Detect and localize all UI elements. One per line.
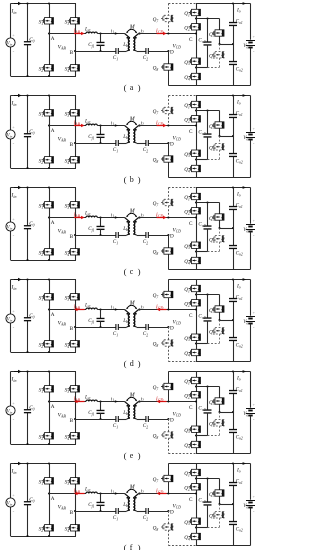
node D (f): [167, 510, 174, 516]
mutual coupling arc M (b): [126, 121, 137, 125]
wire: input left rail (a): [10, 4, 12, 77]
switch Q5 chain (b): [212, 111, 224, 138]
svg-text:iCD: iCD: [156, 29, 163, 35]
node B (e): [70, 418, 76, 424]
svg-text:iCD: iCD: [156, 213, 163, 219]
switch Q3 (c): [189, 242, 201, 248]
wire: right top rail dashed segment (e): [168, 371, 196, 373]
current arrow i2 (f): [139, 488, 144, 495]
wire: bridge leg1 (e): [49, 372, 51, 445]
capacitor C1 (a): [116, 48, 118, 54]
wire: bridge leg1 (c): [49, 188, 51, 261]
transformer primary winding Lk (d): [125, 310, 130, 328]
capacitor Co2 (b): [229, 154, 237, 157]
current arrow Iin (e): [14, 370, 22, 374]
wire: node A to transformer (f): [49, 493, 125, 495]
wire: n2 rail Q3-Q4 midpoint (c): [195, 250, 220, 252]
wire: midpoint link to output caps (f): [220, 503, 235, 505]
current arrow Iin (c): [14, 186, 22, 190]
svg-text:c: c: [130, 267, 134, 276]
flying capacitor Co3 column (f): [204, 479, 212, 528]
node A (c): [48, 216, 55, 226]
polarity dots transformer (b): [126, 129, 136, 131]
wire: n1 rail Q1-Q2 midpoint (b): [195, 109, 220, 111]
capacitor Co2 (d): [229, 338, 237, 341]
svg-text:D: D: [170, 50, 174, 56]
output capacitor column (c): [232, 186, 234, 269]
switch Q6 chain dashed (d): [212, 320, 224, 344]
switch Q2 (d): [189, 300, 201, 306]
red current arrow iCD (a): [157, 32, 167, 36]
junction dots top/bottom rails (f): [26, 462, 50, 537]
node C (e): [189, 400, 197, 411]
wire: C0 rail (f): [27, 464, 29, 537]
wire: input top rail (a): [11, 3, 77, 5]
polarity marks Vin (f): [12, 493, 15, 515]
capacitor C2 (a): [146, 48, 148, 54]
svg-text:B: B: [70, 510, 74, 516]
red current arrow iCD (c): [157, 216, 167, 220]
switch S2 (c): [42, 249, 54, 255]
svg-text:d: d: [130, 359, 134, 368]
source Vin (e): [6, 406, 15, 415]
caption (b): [124, 175, 141, 185]
svg-text:): ): [138, 83, 141, 93]
wire: bottom rail left bridge (a): [11, 76, 77, 78]
svg-text:C: C: [189, 405, 193, 411]
switch Q4 (a): [189, 73, 201, 79]
output capacitor column (d): [232, 278, 234, 361]
wire: midpoint link to output caps (e): [220, 411, 235, 413]
switch Q1 (d): [189, 285, 201, 291]
node C (d): [189, 308, 197, 319]
svg-text:C: C: [189, 37, 193, 43]
current arrow Iin (a): [14, 2, 22, 6]
switch S3 (b): [68, 110, 80, 116]
svg-text:(: (: [124, 267, 127, 277]
current arrow i1 (e): [111, 396, 118, 403]
switch S1 (a): [42, 18, 54, 24]
wire: transformer to node C (c): [139, 217, 196, 219]
svg-text:D: D: [170, 234, 174, 240]
capacitor Co1 (b): [229, 115, 237, 118]
switch Q4 (e): [189, 441, 201, 447]
node A (f): [48, 492, 55, 502]
node C (f): [189, 492, 197, 503]
current arrow i1 (a): [111, 28, 118, 35]
auxiliary switch Q8 chain (c): [161, 235, 173, 270]
node B (c): [70, 234, 76, 240]
battery Vo (c): [246, 188, 255, 270]
junction dot iCD wire (a): [167, 32, 169, 34]
wire: node A to transformer (c): [49, 217, 125, 219]
wire: bridge leg2 (f): [75, 464, 77, 537]
svg-text:A: A: [51, 496, 55, 502]
wire: node B to C1 (c): [75, 235, 116, 237]
battery Vo (f): [246, 464, 255, 546]
wire: input top rail (c): [11, 187, 77, 189]
wire: right bottom rail (e): [196, 453, 251, 455]
wire: input top rail (f): [11, 463, 77, 465]
junction dot iCD wire (c): [167, 216, 169, 218]
svg-text:): ): [138, 175, 141, 185]
wire: secondary bottom to C2 (e): [137, 419, 146, 421]
switch S1 (b): [42, 110, 54, 116]
inductor Lf1 (d): [86, 308, 97, 309]
node B (f): [70, 510, 76, 516]
wire: right top rail (d): [196, 279, 251, 281]
svg-text:iAB: iAB: [74, 489, 81, 495]
wire: n2 rail Q3-Q4 midpoint (a): [195, 66, 220, 68]
switch S4 (e): [68, 433, 80, 439]
switch S2 (b): [42, 157, 54, 163]
red current arrow iCD (f): [157, 492, 167, 496]
wire: right bottom rail segment (c): [168, 269, 196, 271]
mutual coupling arc M (a): [126, 29, 137, 33]
wire: transformer to node C (d): [139, 309, 196, 311]
red current arrow iAB (a): [74, 32, 85, 36]
svg-text:B: B: [70, 50, 74, 56]
transformer secondary winding (b): [133, 126, 138, 144]
auxiliary switch Q8 chain (e): [161, 419, 173, 454]
switch Q3 (d): [189, 334, 201, 340]
capacitor Cf1 (b): [97, 124, 105, 144]
switch Q5 chain (d): [212, 295, 224, 322]
wire: right top rail (c): [196, 187, 251, 189]
svg-text:C: C: [189, 313, 193, 319]
svg-text:C: C: [189, 221, 193, 227]
node D (e): [167, 418, 174, 424]
node C (c): [189, 216, 197, 227]
capacitor C1 (c): [116, 232, 118, 238]
wire: C2 to node D (e): [148, 419, 168, 421]
svg-text:C: C: [189, 497, 193, 503]
polarity dots transformer (a): [126, 37, 136, 39]
svg-text:B: B: [70, 234, 74, 240]
svg-text:(: (: [124, 359, 127, 369]
auxiliary switch Q7 chain (a): [161, 4, 173, 34]
wire: input top rail (e): [11, 371, 77, 373]
switch Q5 chain (f): [212, 479, 224, 506]
junction dot iCD wire (e): [167, 400, 169, 402]
capacitor Cf1 (c): [97, 216, 105, 236]
wire: bridge leg1 (b): [49, 96, 51, 169]
node A (d): [48, 308, 55, 318]
switch S3 (a): [68, 18, 80, 24]
wire: n1 rail Q1-Q2 midpoint (a): [195, 17, 220, 19]
transformer secondary winding (c): [133, 218, 138, 236]
wire: right bottom rail (b): [196, 177, 251, 179]
switch Q6 chain dashed (a): [212, 44, 224, 68]
wire: input left rail (f): [10, 464, 12, 537]
mutual coupling arc M (e): [126, 397, 137, 401]
source Vin (d): [6, 314, 15, 323]
wire: right bottom rail segment (e): [168, 453, 196, 455]
transformer primary winding Lk (a): [125, 34, 130, 52]
wire: bottom rail left bridge (c): [11, 260, 77, 262]
auxiliary switch Q7 chain (b): [161, 96, 173, 126]
switch Q6 chain dashed (b): [212, 136, 224, 160]
svg-text:A: A: [51, 312, 55, 318]
svg-text:Vin: Vin: [7, 226, 13, 231]
caption (c): [124, 267, 141, 277]
node C (a): [189, 32, 197, 43]
transformer secondary winding (a): [133, 34, 138, 52]
node A (a): [48, 32, 55, 42]
inductor Lf1 (f): [86, 492, 97, 493]
caption (e): [124, 451, 141, 461]
switch S2 (f): [42, 525, 54, 531]
mutual coupling arc M (c): [126, 213, 137, 217]
wire: main rectifier leg (b): [196, 96, 198, 178]
source Vin (a): [6, 38, 15, 47]
node B (b): [70, 142, 76, 148]
junction dot iCD wire (d): [167, 308, 169, 310]
switch Q2 (f): [189, 484, 201, 490]
transformer primary winding Lk (c): [125, 218, 130, 236]
switch S1 (c): [42, 202, 54, 208]
wire: bridge leg1 (a): [49, 4, 51, 77]
auxiliary switch Q7 chain (f): [161, 464, 173, 494]
red current arrow iCD (d): [157, 308, 167, 312]
wire: midpoint link to output caps (b): [220, 135, 235, 137]
capacitor Co2 (c): [229, 246, 237, 249]
auxiliary switch Q7 chain (e): [161, 372, 173, 402]
capacitor Cf1 (e): [97, 400, 105, 420]
wire: n2 rail Q3-Q4 midpoint (d): [195, 342, 220, 344]
wire: right top rail dashed segment (b): [168, 95, 196, 97]
capacitor Co1 (c): [229, 207, 237, 210]
svg-text:): ): [138, 543, 141, 550]
wire: C0 rail (e): [27, 372, 29, 445]
switch Q1 (c): [189, 193, 201, 199]
caption (d): [124, 359, 141, 369]
svg-text:A: A: [51, 220, 55, 226]
svg-text:a: a: [130, 83, 134, 92]
capacitor Co1 (d): [229, 299, 237, 302]
capacitor C1 (d): [116, 324, 118, 330]
wire: node B to C1 (a): [75, 51, 116, 53]
switch Q2 (a): [189, 24, 201, 30]
switch Q3 (b): [189, 150, 201, 156]
svg-text:iCD: iCD: [156, 397, 163, 403]
wire: C1 to primary bottom (f): [118, 511, 126, 513]
capacitor C0 (b): [24, 134, 31, 137]
wire: node B to C1 (d): [75, 327, 116, 329]
wire: C2 to node D (b): [148, 143, 168, 145]
switch Q4 (c): [189, 257, 201, 263]
wire: main rectifier leg (d): [196, 280, 198, 362]
wire: transformer to node C (f): [139, 493, 196, 495]
node B (d): [70, 326, 76, 332]
caption (f): [124, 543, 141, 550]
auxiliary switch Q7 chain (c): [161, 188, 173, 218]
wire: right top rail dashed segment (a): [168, 3, 196, 5]
capacitor C0 (e): [24, 410, 31, 413]
current arrow Iin (b): [14, 94, 22, 98]
switch S2 (e): [42, 433, 54, 439]
output capacitor column (b): [232, 94, 234, 177]
svg-text:A: A: [51, 36, 55, 42]
svg-text:C: C: [189, 129, 193, 135]
wire: bridge leg2 (a): [75, 4, 77, 77]
wire: C0 rail (c): [27, 188, 29, 261]
wire: bridge leg2 (c): [75, 188, 77, 261]
wire: right bottom rail segment (f): [168, 545, 196, 547]
wire: transformer to node C (b): [139, 125, 196, 127]
svg-text:iCD: iCD: [156, 121, 163, 127]
svg-text:B: B: [70, 326, 74, 332]
svg-text:): ): [138, 359, 141, 369]
svg-text:iAB: iAB: [74, 29, 81, 35]
polarity marks Vo (b): [253, 126, 256, 147]
svg-text:Vin: Vin: [7, 318, 13, 323]
transformer secondary winding (f): [133, 494, 138, 512]
capacitor C0 (d): [24, 318, 31, 321]
wire: C1 to primary bottom (d): [118, 327, 126, 329]
capacitor C1 (f): [116, 508, 118, 514]
wire: main rectifier leg (e): [196, 372, 198, 454]
svg-text:D: D: [170, 418, 174, 424]
source Vin (c): [6, 222, 15, 231]
wire: C1 to primary bottom (b): [118, 143, 126, 145]
wire: right top rail dashed segment (c): [168, 187, 196, 189]
svg-text:B: B: [70, 418, 74, 424]
node D (b): [167, 142, 174, 148]
wire: bridge leg1 (d): [49, 280, 51, 353]
capacitor C2 (c): [146, 232, 148, 238]
current arrow Io (a): [243, 2, 247, 5]
svg-text:iAB: iAB: [74, 213, 81, 219]
red current arrow iAB (c): [74, 216, 85, 220]
wire: C2 to node D (f): [148, 511, 168, 513]
wire: right bottom rail (f): [196, 545, 251, 547]
svg-text:f: f: [130, 543, 133, 550]
switch S3 (d): [68, 294, 80, 300]
switch S4 (b): [68, 157, 80, 163]
wire: C2 to node D (d): [148, 327, 168, 329]
svg-text:Vin: Vin: [7, 134, 13, 139]
wire: secondary bottom to C2 (d): [137, 327, 146, 329]
wire: C0 rail (d): [27, 280, 29, 353]
switch Q2 (b): [189, 116, 201, 122]
source Vin (f): [6, 498, 15, 507]
switch Q3 (f): [189, 518, 201, 524]
switch Q6 chain dashed (e): [212, 412, 224, 436]
wire: node A to transformer (a): [49, 33, 125, 35]
wire: bottom rail left bridge (e): [11, 444, 77, 446]
node D (c): [167, 234, 174, 240]
switch Q4 (d): [189, 349, 201, 355]
capacitor Cf1 (f): [97, 492, 105, 512]
red current arrow iCD (e): [157, 400, 167, 404]
switch Q4 (f): [189, 533, 201, 539]
polarity marks Vo (f): [253, 494, 256, 515]
current arrow i1 (c): [111, 212, 118, 219]
current arrow Io (b): [243, 94, 247, 97]
svg-text:D: D: [170, 510, 174, 516]
wire: right bottom rail segment (a): [168, 85, 196, 87]
current arrow Iin (f): [14, 462, 22, 466]
wire: right top rail dashed segment (d): [168, 279, 196, 281]
svg-text:iAB: iAB: [74, 305, 81, 311]
junction dots top/bottom rails (d): [26, 278, 50, 353]
switch S1 (d): [42, 294, 54, 300]
transformer secondary winding (e): [133, 402, 138, 420]
capacitor Co1 (a): [229, 23, 237, 26]
output capacitor column (e): [232, 370, 234, 453]
polarity dots transformer (e): [126, 405, 136, 407]
current arrow i2 (c): [139, 212, 144, 219]
switch S4 (d): [68, 341, 80, 347]
wire: node A to transformer (d): [49, 309, 125, 311]
switch Q1 (b): [189, 101, 201, 107]
switch Q3 (a): [189, 58, 201, 64]
current arrow i2 (d): [139, 304, 144, 311]
svg-text:iCD: iCD: [156, 305, 163, 311]
inductor Lf1 (e): [86, 400, 97, 401]
wire: node B to C1 (b): [75, 143, 116, 145]
switch S1 (f): [42, 478, 54, 484]
current arrow Io (f): [243, 462, 247, 465]
wire: midpoint link to output caps (c): [220, 227, 235, 229]
battery Vo (e): [246, 372, 255, 454]
red current arrow iAB (f): [74, 492, 85, 496]
red current arrow iAB (d): [74, 308, 85, 312]
switch S3 (e): [68, 386, 80, 392]
wire: secondary bottom to C2 (c): [137, 235, 146, 237]
current arrow Io (e): [243, 370, 247, 373]
switch S4 (c): [68, 249, 80, 255]
polarity marks Vin (b): [12, 125, 15, 147]
polarity marks Vo (a): [253, 34, 256, 55]
svg-text:B: B: [70, 142, 74, 148]
junction dots top/bottom rails (c): [26, 186, 50, 261]
polarity marks Vin (a): [12, 33, 15, 55]
svg-text:iAB: iAB: [74, 397, 81, 403]
svg-text:(: (: [124, 175, 127, 185]
wire: node A to transformer (e): [49, 401, 125, 403]
wire: main rectifier leg (c): [196, 188, 198, 270]
switch S2 (d): [42, 341, 54, 347]
mutual coupling arc M (f): [126, 489, 137, 493]
wire: input left rail (b): [10, 96, 12, 169]
switch Q6 chain dashed (f): [212, 504, 224, 528]
wire: n1 rail Q1-Q2 midpoint (c): [195, 201, 220, 203]
flying capacitor Co3 column (b): [204, 111, 212, 160]
wire: C2 to node D (c): [148, 235, 168, 237]
wire: right bottom rail segment (b): [168, 177, 196, 179]
auxiliary switch Q7 chain (d): [161, 280, 173, 310]
switch S4 (f): [68, 525, 80, 531]
node B (a): [70, 50, 76, 56]
svg-text:b: b: [130, 175, 134, 184]
transformer primary winding Lk (e): [125, 402, 130, 420]
battery Vo (d): [246, 280, 255, 362]
wire: bottom rail left bridge (d): [11, 352, 77, 354]
polarity marks Vin (e): [12, 401, 15, 423]
capacitor C2 (e): [146, 416, 148, 422]
capacitor Co2 (f): [229, 522, 237, 525]
wire: n2 rail Q3-Q4 midpoint (e): [195, 434, 220, 436]
wire: transformer to node C (e): [139, 401, 196, 403]
wire: transformer to node C (a): [139, 33, 196, 35]
wire: n2 rail Q3-Q4 midpoint (f): [195, 526, 220, 528]
capacitor Co1 (f): [229, 483, 237, 486]
flying capacitor Co3 column (d): [204, 295, 212, 344]
switch Q2 (c): [189, 208, 201, 214]
wire: C1 to primary bottom (a): [118, 51, 126, 53]
